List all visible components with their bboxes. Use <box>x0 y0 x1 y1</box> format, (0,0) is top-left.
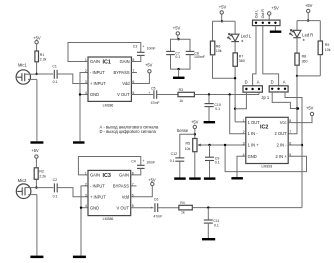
svg-text:R9: R9 <box>325 43 330 47</box>
svg-text:0.1: 0.1 <box>175 55 180 59</box>
svg-text:Out R: Out R <box>261 9 265 19</box>
svg-text:R7: R7 <box>239 54 244 58</box>
svg-text:GAIN: GAIN <box>90 173 100 178</box>
svg-text:R6: R6 <box>216 44 221 48</box>
svg-text:Mic2: Mic2 <box>18 178 27 183</box>
svg-text:∗: ∗ <box>302 38 305 42</box>
svg-text:0.1: 0.1 <box>214 223 219 227</box>
svg-text:GAIN: GAIN <box>120 59 130 64</box>
svg-text:R1: R1 <box>40 53 45 57</box>
svg-text:LM393: LM393 <box>262 165 273 169</box>
svg-text:1 OUT: 1 OUT <box>248 120 261 125</box>
svg-text:7: 7 <box>289 130 291 134</box>
svg-text:+5V: +5V <box>191 120 199 125</box>
svg-text:GAIN: GAIN <box>90 59 100 64</box>
svg-text:2 IN +: 2 IN + <box>276 154 288 159</box>
svg-text:1: 1 <box>243 119 245 123</box>
svg-text:2: 2 <box>85 69 87 73</box>
svg-text:100mF: 100mF <box>194 55 205 59</box>
svg-text:A: A <box>283 79 286 84</box>
svg-text:+5V: +5V <box>173 25 181 30</box>
svg-text:D: D <box>271 79 274 84</box>
svg-text:D: D <box>245 79 248 84</box>
svg-text:10k: 10k <box>216 49 222 53</box>
svg-text:2 IN -: 2 IN - <box>277 143 288 148</box>
svg-text:V OUT: V OUT <box>116 205 129 210</box>
svg-text:GND: GND <box>90 205 99 210</box>
svg-text:+5V: +5V <box>271 5 279 10</box>
svg-text:2.2k: 2.2k <box>40 58 47 62</box>
svg-text:0.1: 0.1 <box>53 194 58 198</box>
svg-text:- INPUT: - INPUT <box>90 70 105 75</box>
svg-text:D - выход цифрового сигнала: D - выход цифрового сигнала <box>100 129 157 134</box>
svg-text:+ INPUT: + INPUT <box>90 81 106 86</box>
svg-text:+5V: +5V <box>305 3 313 8</box>
svg-text:0.1: 0.1 <box>170 159 175 163</box>
svg-text:+5V: +5V <box>31 148 39 153</box>
svg-text:C2: C2 <box>53 178 58 182</box>
svg-text:0.1: 0.1 <box>53 80 58 84</box>
svg-text:A: A <box>257 79 260 84</box>
svg-text:47mF: 47mF <box>151 101 160 105</box>
svg-text:Jp 1: Jp 1 <box>261 95 269 100</box>
svg-text:2 OUT: 2 OUT <box>275 131 288 136</box>
svg-text:2: 2 <box>243 130 245 134</box>
svg-text:Out L: Out L <box>254 10 258 19</box>
svg-text:LM386: LM386 <box>103 103 114 107</box>
svg-text:Sense: Sense <box>177 128 189 133</box>
svg-text:10mF: 10mF <box>146 160 155 164</box>
svg-text:Vcc: Vcc <box>280 120 287 125</box>
svg-text:+5V: +5V <box>148 178 156 183</box>
svg-text:+ INPUT: + INPUT <box>90 194 106 199</box>
svg-text:GAIN: GAIN <box>119 173 129 178</box>
svg-text:+: + <box>148 91 150 95</box>
svg-text:IC3: IC3 <box>103 173 111 179</box>
svg-text:47mF: 47mF <box>153 215 162 219</box>
svg-text:R5: R5 <box>186 141 191 145</box>
svg-text:10k: 10k <box>325 48 331 52</box>
svg-text:R4: R4 <box>180 201 185 205</box>
svg-text:R2: R2 <box>39 170 44 174</box>
svg-text:1 IN -: 1 IN - <box>248 131 259 136</box>
svg-text:C5: C5 <box>151 87 156 91</box>
svg-text:+5V: +5V <box>145 63 153 68</box>
svg-text:IC2: IC2 <box>260 125 268 131</box>
svg-text:BYPASS: BYPASS <box>113 184 129 189</box>
svg-text:C3: C3 <box>133 45 138 49</box>
svg-text:+: + <box>142 159 144 163</box>
svg-text:Vdd: Vdd <box>122 194 130 199</box>
svg-text:Mic1: Mic1 <box>18 63 27 68</box>
svg-text:10k: 10k <box>185 147 191 151</box>
svg-text:V OUT: V OUT <box>117 92 130 97</box>
svg-text:+: + <box>151 206 153 210</box>
svg-text:360: 360 <box>239 59 245 63</box>
svg-text:10mF: 10mF <box>147 46 156 50</box>
svg-text:1 IN +: 1 IN + <box>248 143 260 148</box>
svg-text:∗: ∗ <box>241 39 244 43</box>
svg-text:C4: C4 <box>131 160 136 164</box>
svg-text:2.2k: 2.2k <box>39 174 46 178</box>
svg-text:C1: C1 <box>52 64 57 68</box>
svg-text:BYPASS: BYPASS <box>114 70 130 75</box>
svg-text:IC1: IC1 <box>103 59 111 65</box>
svg-text:3: 3 <box>85 193 87 197</box>
svg-text:GND: GND <box>90 92 99 97</box>
svg-text:0.1: 0.1 <box>215 160 220 164</box>
svg-text:1k: 1k <box>181 211 185 215</box>
svg-text:Led R: Led R <box>302 32 313 37</box>
svg-text:4: 4 <box>85 204 87 208</box>
svg-text:0.1: 0.1 <box>215 107 220 111</box>
svg-text:LM386: LM386 <box>103 217 114 221</box>
svg-text:R8: R8 <box>302 55 307 59</box>
svg-text:+: + <box>142 44 144 48</box>
svg-text:- INPUT: - INPUT <box>90 184 105 189</box>
svg-text:+5V: +5V <box>306 105 314 110</box>
svg-text:GND: GND <box>248 154 257 159</box>
svg-text:+5V: +5V <box>33 36 41 41</box>
svg-text:Vdd: Vdd <box>122 81 130 86</box>
svg-text:3: 3 <box>85 80 87 84</box>
svg-text:4: 4 <box>85 91 87 95</box>
svg-text:360: 360 <box>302 59 308 63</box>
svg-text:C6: C6 <box>154 198 159 202</box>
svg-text:1k: 1k <box>179 99 183 103</box>
svg-text:2: 2 <box>85 182 87 186</box>
svg-text:+5V: +5V <box>219 5 227 10</box>
svg-text:C12: C12 <box>171 152 177 156</box>
svg-text:R3: R3 <box>179 88 184 92</box>
